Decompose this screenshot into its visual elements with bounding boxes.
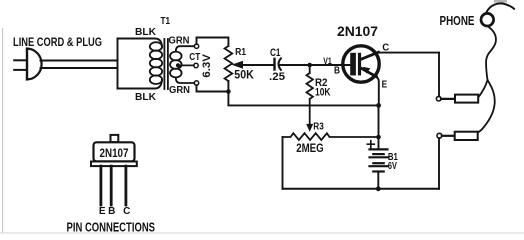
wire primary vertical [117,39,119,89]
wire secondary bottom lead [176,77,195,83]
terminal circle phone tip bottom [437,133,442,138]
capacitor C1 left plate [273,59,275,70]
svg-text:B: B [108,206,115,217]
terminal circle GRN bottom [194,81,198,85]
battery B1 plates [370,149,388,171]
resistor R2 lead top [309,65,311,73]
scan edge artifact bottom [0,232,524,233]
svg-text:BLK: BLK [135,26,156,38]
earphone hook [486,3,514,13]
node CT dot on winding [176,63,180,67]
scan edge artifact left [2,28,3,233]
wire collector to phone [378,52,439,54]
svg-text:.25: .25 [269,71,285,83]
svg-text:10K: 10K [315,87,331,99]
svg-text:R1: R1 [235,46,246,58]
svg-text:T1: T1 [161,16,171,27]
svg-text:PHONE: PHONE [440,14,475,28]
transistor base bar [350,53,361,76]
wire center tap [178,64,194,66]
wire tip lead top [441,98,455,100]
wire secondary top lead [176,46,195,51]
svg-text:C: C [123,206,130,217]
transistor V1 circle [343,46,379,82]
node emitter junction [376,103,381,108]
scan smudge top right [494,0,507,3]
svg-text:2MEG: 2MEG [296,143,324,155]
node base junction [307,63,312,68]
battery B1 plus sign [367,143,374,145]
node R1 bottom junction [226,89,231,94]
wire R1 bottom lead [227,81,229,92]
wire primary top lead [118,39,162,47]
svg-text:2N107: 2N107 [337,24,378,39]
wire wiper to C1 [243,64,274,66]
terminal circle CT [194,63,198,67]
package leg E [100,166,103,205]
package leg B [110,166,113,205]
resistor R2 10K zigzag [307,73,313,99]
plug P1 body arc [27,49,42,80]
capacitor C1 right plate [279,58,281,70]
wire bottom rail [283,188,440,190]
wire primary bottom lead [118,80,162,89]
svg-text:PIN CONNECTIONS: PIN CONNECTIONS [67,220,156,235]
svg-text:6V: 6V [388,161,397,172]
svg-text:E: E [99,206,106,217]
2N107 package tab [111,135,119,142]
wire emitter to battery [378,105,380,148]
svg-text:LINE CORD & PLUG: LINE CORD & PLUG [13,35,102,49]
earphone circle [481,13,494,26]
wire R3 left down [282,137,284,189]
wire cord upper [41,60,118,62]
resistor R1 50K zigzag [225,46,233,81]
plug prong bottom [14,69,27,71]
R1 wiper arrow [232,61,244,69]
transistor emitter arrow (PNP) [363,67,371,74]
package leg C [125,166,128,205]
2N107 package body [94,142,135,161]
terminal circle phone tip top [436,96,441,101]
wire emitter down [376,77,379,106]
wire R2 bottom lead [309,99,311,106]
svg-text:C1: C1 [270,47,281,59]
earphone cord branch to top plug [478,80,487,97]
svg-text:CT: CT [189,52,200,63]
earphone cord to bottom plug [478,26,496,132]
wire phone top vertical [438,53,440,97]
phone plug body top [455,95,478,103]
wire phone bottom vertical [438,138,440,189]
svg-text:B: B [334,64,340,76]
terminal circle GRN top [194,44,198,48]
svg-text:R3: R3 [313,122,324,133]
transformer T1 core [163,39,165,89]
svg-text:BLK: BLK [135,91,156,103]
R3 wiper arrow [306,124,313,132]
svg-text:V1: V1 [323,56,332,67]
wire tip lead bottom [442,135,455,137]
plug prong top [14,59,27,61]
svg-text:GRN: GRN [169,34,190,46]
wire R3 wiper line [309,106,311,125]
transformer T1 secondary winding [170,52,182,78]
wire C1 to base [280,64,351,66]
2N107 package flange [91,162,137,167]
wire battery bottom [377,172,379,189]
plug P1 flat edge [26,49,28,80]
transistor collector diagonal [362,52,379,59]
svg-text:6.3V: 6.3V [201,53,213,77]
wire mid rail [228,92,378,106]
svg-text:GRN: GRN [169,84,190,96]
svg-text:E: E [382,79,388,91]
svg-text:50K: 50K [234,70,254,82]
phone plug body bottom [455,132,478,140]
svg-text:2N107: 2N107 [100,146,129,160]
wire cord lower [41,67,118,69]
node battery bottom junction [376,186,381,191]
potentiometer R3 2MEG zigzag [283,133,379,140]
node battery top junction [376,135,381,140]
transistor emitter diagonal [362,69,377,77]
wire bottom of secondary to rail [197,85,229,91]
transformer T1 primary winding [150,42,162,84]
wire top rail to R1 [197,38,229,47]
